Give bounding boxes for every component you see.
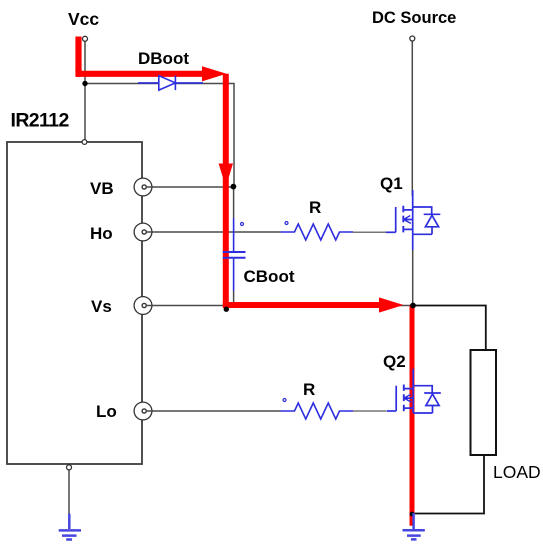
svg-text:DC Source: DC Source: [372, 9, 456, 27]
svg-text:Q2: Q2: [383, 352, 406, 371]
svg-text:R: R: [303, 380, 315, 399]
svg-text:Vs: Vs: [91, 297, 112, 316]
svg-text:Q1: Q1: [380, 174, 403, 193]
svg-text:DBoot: DBoot: [138, 49, 189, 68]
svg-text:VB: VB: [90, 179, 114, 198]
svg-text:Vcc: Vcc: [68, 9, 99, 29]
svg-text:LOAD: LOAD: [493, 462, 541, 482]
svg-text:IR2112: IR2112: [11, 110, 70, 132]
svg-text:Ho: Ho: [90, 224, 113, 243]
svg-text:Lo: Lo: [96, 402, 117, 421]
svg-text:CBoot: CBoot: [244, 267, 295, 286]
svg-text:R: R: [309, 198, 321, 217]
